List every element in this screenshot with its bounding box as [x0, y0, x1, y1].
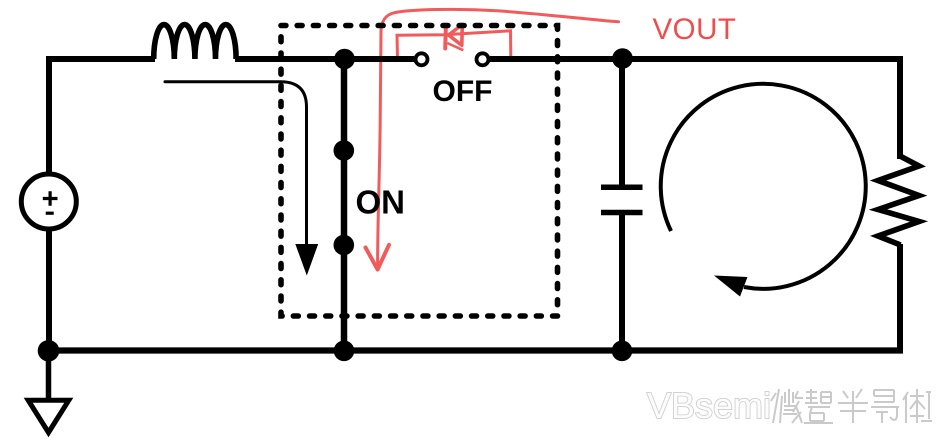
wire top right horizontal (switch to top-right corner): [490, 56, 903, 62]
wire capacitor lower: [619, 215, 625, 351]
wire capacitor upper: [619, 59, 625, 185]
ground: [28, 400, 69, 432]
svg-text:VOUT: VOUT: [653, 13, 737, 46]
node junction dot (bottom left): [38, 340, 60, 362]
label ON: [356, 184, 406, 221]
wire top middle horizontal (inductor to switch): [235, 56, 414, 62]
svg-text:OFF: OFF: [433, 75, 493, 108]
label OFF: [433, 75, 493, 108]
voltage source plus sign: [43, 191, 58, 206]
wire right vertical upper: [897, 56, 903, 159]
node junction dot (bottom switch): [334, 341, 355, 362]
watermark CJK glyph 3 (ban): [838, 389, 868, 423]
node VOUT red current path: [378, 9, 619, 264]
node junction dot (branch mid lower): [334, 235, 355, 256]
wire switch branch vertical: [341, 59, 348, 350]
wire red diode bypass bracket: [397, 31, 511, 58]
black arrowhead: [295, 244, 318, 276]
node junction dot (bottom cap): [612, 341, 633, 362]
inductor L1: [154, 24, 236, 59]
svg-text:ON: ON: [356, 184, 406, 221]
wire left vertical upper: [46, 56, 52, 175]
resistor R1: [878, 156, 919, 245]
label VOUT (red): [653, 13, 737, 46]
capacitor C1 bottom plate: [601, 210, 643, 216]
watermark CJK glyph 4 (dao): [871, 390, 899, 423]
dashed control box: [281, 26, 558, 317]
wire right vertical lower: [897, 244, 903, 353]
diode D1 triangle (red): [449, 25, 463, 46]
wire top left horizontal: [46, 56, 155, 62]
wire bottom horizontal: [46, 347, 903, 353]
node junction dot (cap top): [612, 48, 633, 69]
voltage source V1: [21, 174, 76, 229]
wire ground stub: [46, 350, 52, 401]
load current loop arc: [661, 84, 866, 289]
voltage source minus sign: [46, 212, 54, 215]
black inductor-current arrow path: [165, 82, 307, 245]
node junction dot (switch top): [334, 49, 355, 70]
loop arrowhead: [714, 276, 748, 297]
watermark CJK glyph 2 (bi): [804, 389, 833, 423]
watermark CJK glyph 5 (ti): [903, 389, 932, 423]
capacitor C1 top plate: [601, 185, 643, 191]
node junction dot (branch mid upper): [334, 140, 355, 161]
diode D1 (red, hand-drawn, cathode bar): [445, 26, 462, 50]
wire left vertical lower: [46, 229, 52, 353]
switch S1 terminal left: [416, 53, 428, 65]
watermark VBsemi text: [647, 385, 771, 426]
switch S1 terminal right: [477, 53, 489, 65]
red arrowhead of VOUT path: [366, 245, 390, 270]
watermark CJK glyph 1 (wei): [771, 389, 803, 423]
svg-text:VBsemi: VBsemi: [647, 385, 771, 426]
